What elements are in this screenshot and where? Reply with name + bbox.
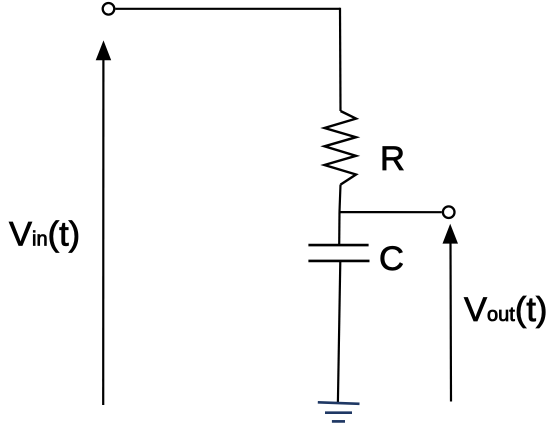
ground bbox=[318, 402, 360, 421]
wire: resistor bottom to node bbox=[340, 185, 341, 212]
node: junction of R, C and output bbox=[338, 212, 340, 245]
svg-text:Vin(t): Vin(t) bbox=[9, 215, 80, 253]
Vout arrow bbox=[443, 224, 459, 402]
output terminal (open circle) bbox=[443, 206, 455, 218]
svg-text:Vout(t): Vout(t) bbox=[464, 291, 547, 329]
svg-text:R: R bbox=[380, 140, 405, 178]
capacitor C bbox=[308, 245, 369, 261]
input terminal (open circle) bbox=[103, 3, 115, 15]
wire: capacitor bottom to ground bbox=[338, 261, 340, 403]
resistor R bbox=[325, 111, 357, 185]
wire: corner down to resistor top bbox=[339, 8, 342, 111]
wire: node to output terminal bbox=[339, 211, 442, 213]
Vin arrow bbox=[96, 40, 112, 405]
wire: input terminal to top-right corner bbox=[115, 8, 340, 10]
svg-text:C: C bbox=[379, 240, 404, 278]
